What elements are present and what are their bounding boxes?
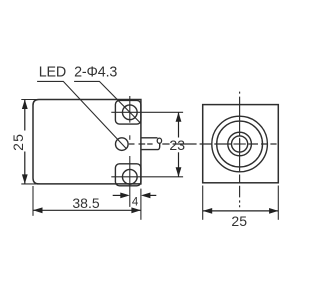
dim 23 arrows <box>176 112 182 122</box>
svg-text:4: 4 <box>132 197 139 209</box>
svg-text:23: 23 <box>169 137 185 153</box>
dim 25 left line <box>24 100 26 131</box>
hole top crosshair vertical <box>129 96 131 123</box>
barrel bottom line <box>141 143 160 149</box>
dim 25 front arrows <box>203 208 213 214</box>
svg-text:2-Φ4.3: 2-Φ4.3 <box>74 65 117 81</box>
front view square <box>203 105 279 183</box>
svg-text:LED: LED <box>39 65 66 81</box>
LED indicator circle <box>116 138 129 151</box>
leader to LED <box>37 81 126 148</box>
hole top crosshair horizontal / 23 extension <box>111 111 183 113</box>
dim 4 right arrow (outside) <box>149 194 156 196</box>
dim 38.5 arrows <box>33 207 43 213</box>
svg-text:38.5: 38.5 <box>72 195 99 211</box>
mounting tab bottom <box>115 164 140 186</box>
dim 38.5 extension left <box>32 186 34 216</box>
dim 25 left extension top <box>21 99 40 101</box>
hole bottom crosshair vertical / 4 extension <box>129 156 131 207</box>
dim 38.5 extension right <box>140 189 142 220</box>
leader to holes <box>74 81 141 123</box>
hole bottom crosshair horizontal / 23 extension <box>111 176 183 178</box>
barrel end cap <box>157 138 161 143</box>
dim 38.5 line <box>33 209 141 211</box>
dim 25 left arrows <box>22 100 28 110</box>
dim 25 left extension bottom <box>21 183 40 185</box>
dim 4 left arrow (outside) <box>113 194 122 196</box>
dim 25 front line <box>203 210 279 212</box>
dim 23 line <box>178 112 180 137</box>
hole top (2-Φ4.3) <box>122 105 137 120</box>
mounting tab top <box>115 100 140 124</box>
front circle 3 <box>228 132 252 156</box>
barrel top line <box>141 137 158 139</box>
horizontal centerline (side to front) <box>129 143 277 145</box>
front circle outer <box>212 116 268 172</box>
dim 25 front extension left <box>202 186 204 220</box>
hole bottom (2-Φ4.3) <box>122 169 137 184</box>
body (side view) <box>33 100 141 184</box>
front circle 2 <box>217 121 263 167</box>
svg-text:25: 25 <box>231 213 247 229</box>
hole bottom crosshair vertical dot dash <box>129 135 131 140</box>
front center cross <box>233 143 245 145</box>
dim 25 front extension right <box>277 186 279 220</box>
front circle inner <box>232 136 248 152</box>
front vertical centerline <box>239 92 241 208</box>
svg-text:25: 25 <box>10 133 26 151</box>
